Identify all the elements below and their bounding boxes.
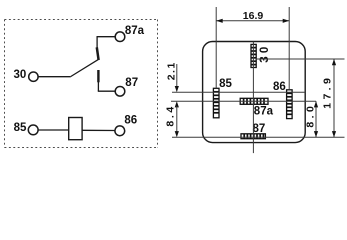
armature diagonal — [71, 59, 99, 76]
svg-text:87: 87 — [253, 123, 266, 135]
row line middle (extends to 8.0 dim) — [171, 100, 316, 102]
svg-text:30: 30 — [259, 43, 271, 62]
terminal 87 circle — [115, 87, 125, 97]
row line upper — [172, 91, 305, 93]
svg-text:86: 86 — [124, 114, 137, 126]
pin 87 (horizontal blade) — [241, 134, 265, 139]
coil rectangle — [69, 118, 82, 140]
pin 87a (horizontal blade) — [240, 98, 268, 104]
contact 87a stem — [96, 37, 98, 48]
dim 8.0 bottom arrow — [314, 131, 318, 137]
svg-text:87a: 87a — [254, 105, 274, 117]
dim 2.1 lower arrow / 8.4 top arrow — [175, 101, 179, 107]
dim 2.1 upper shaft and arrow — [176, 64, 178, 87]
vertical center line — [252, 42, 254, 154]
svg-text:86: 86 — [273, 81, 286, 93]
dim 16.9 line — [216, 20, 289, 22]
dim 16.9 arrow right — [283, 19, 290, 23]
wire 85 to coil — [38, 129, 69, 131]
contact 87 thick — [97, 70, 99, 82]
svg-text:87: 87 — [125, 77, 138, 89]
dim 16.9 extension line left — [215, 7, 217, 88]
svg-text:8.0: 8.0 — [304, 103, 316, 128]
svg-text:85: 85 — [219, 78, 232, 90]
wire to 87a — [97, 36, 116, 38]
terminal 85 circle — [28, 125, 38, 135]
dim 16.9 extension line right — [288, 7, 290, 90]
17.9 top extension line — [256, 58, 345, 60]
dim 8.4 bottom arrow — [175, 131, 179, 137]
pin 86 (vertical blade) — [287, 90, 293, 119]
relay body outline (bottom view) — [203, 42, 306, 143]
dim 16.9 arrow left — [216, 19, 223, 23]
dim 8.0 top arrow — [314, 101, 318, 107]
wire coil to 86 — [82, 129, 115, 131]
dim 17.9 bottom arrow — [332, 131, 336, 137]
pin 85 (vertical blade) — [213, 88, 219, 118]
svg-text:17.9: 17.9 — [322, 75, 334, 109]
bottom extension line — [172, 136, 345, 138]
dim 17.9 line — [333, 59, 335, 137]
wire 87 vertical — [97, 82, 99, 92]
svg-text:2.1: 2.1 — [166, 61, 178, 80]
dim 8.0 line — [315, 101, 317, 137]
dim 8.4 line — [176, 106, 178, 132]
svg-text:8.4: 8.4 — [165, 104, 177, 126]
armature thick tip — [97, 47, 99, 60]
svg-text:30: 30 — [14, 69, 27, 81]
relay outline dashed box — [5, 20, 158, 148]
wire 30 to armature pivot — [38, 76, 71, 78]
svg-text:16.9: 16.9 — [243, 10, 264, 22]
dim 17.9 top arrow — [332, 59, 336, 65]
svg-text:87a: 87a — [125, 25, 145, 37]
terminal 87a circle — [115, 32, 125, 42]
terminal 30 circle — [29, 72, 38, 81]
svg-text:85: 85 — [14, 122, 27, 134]
terminal 86 circle — [115, 126, 125, 136]
pin 30 (vertical blade) — [251, 44, 256, 67]
wire to 87 — [98, 90, 116, 92]
